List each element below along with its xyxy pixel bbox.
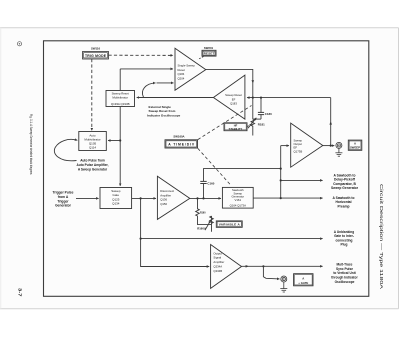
- wire into sweep output EF: [281, 145, 289, 147]
- svg-text:HF: HF: [234, 123, 238, 127]
- svg-text:VARIABLE A: VARIABLE A: [219, 223, 241, 227]
- svg-text:C160: C160: [207, 182, 214, 186]
- block auto multivibrator Q105 Q114: [79, 132, 107, 151]
- page left edge: [0, 28, 2, 309]
- note external single sweep reset: [147, 105, 180, 117]
- svg-text:Sweep Generator: Sweep Generator: [331, 186, 359, 190]
- svg-text:Preamp: Preamp: [337, 205, 349, 209]
- svg-text:Signal: Signal: [213, 256, 221, 260]
- svg-text:Trigger: Trigger: [57, 199, 69, 203]
- switch A TIME/DIV: [165, 140, 198, 148]
- svg-text:SW160A: SW160A: [173, 135, 184, 139]
- svg-text:Q114: Q114: [89, 145, 96, 149]
- wire jog to + GATE jack: [263, 266, 279, 279]
- svg-text:TRIG MODE: TRIG MODE: [85, 54, 107, 58]
- node junction sweep output: [330, 145, 332, 147]
- op-amp sweep output EF Q173B: [291, 123, 323, 167]
- wire timing cap runup line to output node: [204, 169, 281, 182]
- wire output amplifier to mult-trace sync: [242, 265, 323, 267]
- wire trigger pulse into sweep gate: [76, 197, 99, 199]
- wire junction to auto multivibrator: [108, 140, 120, 142]
- wire reset bus into sweep reset EF: [247, 97, 331, 99]
- wiper arrow on potentiometer: [205, 221, 211, 231]
- switch HF STABILITY: [224, 123, 247, 131]
- node junction runup: [280, 168, 282, 170]
- wire external single sweep reset curve: [142, 83, 155, 97]
- note auto pulse source: [77, 159, 109, 172]
- wire dashed HF STABILITY to R181: [247, 124, 250, 127]
- node junction reset bus right: [260, 97, 262, 99]
- svg-text:Auto Pulse Amplifier,: Auto Pulse Amplifier,: [77, 163, 109, 167]
- svg-text:Q150: Q150: [160, 202, 167, 206]
- page top edge: [0, 27, 399, 29]
- switch VARIABLE A: [216, 221, 242, 227]
- wire sweep output to A SWEEP jack: [323, 145, 335, 147]
- block sweep gate Q125 Q134: [100, 188, 132, 209]
- registration mark: [17, 42, 21, 46]
- wire sweep reset EF output to multivibrator: [137, 97, 214, 99]
- note mult-trace sync pulse: [331, 263, 358, 284]
- block sawtooth sweep generator V161 Q164 Q173A: [222, 187, 253, 208]
- svg-text:Indicator Oscilloscope: Indicator Oscilloscope: [147, 113, 180, 117]
- wiper arrow on R181: [248, 118, 256, 128]
- node junction gate takeoff: [262, 265, 264, 267]
- op-amp single-sweep reset Q184 Q204: [175, 48, 206, 90]
- svg-text:Plug: Plug: [341, 243, 348, 247]
- svg-text:Amplifier: Amplifier: [213, 260, 224, 264]
- arrow up on feedback vertical: [329, 121, 332, 124]
- switch RESET: [202, 50, 216, 56]
- svg-text:Trigger Pulse: Trigger Pulse: [53, 191, 74, 195]
- svg-text:R181: R181: [258, 123, 265, 127]
- wire multivibrator bottom down to sweep gate: [119, 107, 121, 186]
- op-amp disconnect amplifier Q136 Q150: [157, 176, 189, 219]
- note A sawtooth to horizontal preamp: [332, 196, 354, 209]
- svg-text:C180: C180: [265, 112, 272, 116]
- node junction sweep gate output: [140, 197, 142, 199]
- page right edge: [398, 28, 400, 309]
- svg-text:A Sweep Generator: A Sweep Generator: [78, 168, 108, 172]
- svg-text:Fig. 3-1. A Sweep Generator de: Fig. 3-1. A Sweep Generator detailed blo…: [29, 114, 33, 175]
- potentiometer VARIABLE A: [210, 216, 214, 232]
- capacitor C160: [200, 181, 214, 198]
- node junction timing resistor tap: [196, 197, 198, 199]
- svg-text:3-7: 3-7: [18, 288, 23, 297]
- svg-text:Q234B: Q234B: [213, 269, 222, 273]
- connector A SWEEP jack: [336, 142, 342, 148]
- svg-text:A TIME/DIV: A TIME/DIV: [168, 143, 195, 147]
- wire dashed TIME/DIV to timing components upper: [198, 106, 252, 140]
- note trigger pulse source: [53, 191, 74, 208]
- wire external reset into triangle: [157, 82, 174, 84]
- wire sweep gate to disconnect amplifier: [132, 197, 156, 199]
- connector + GATE jack: [281, 276, 287, 282]
- block sweep reset multivibrator Q193A Q193B: [106, 91, 135, 107]
- svg-text:Oscilloscope: Oscilloscope: [335, 280, 355, 284]
- svg-text:Q183: Q183: [230, 102, 237, 106]
- svg-text:Generator: Generator: [55, 204, 71, 208]
- switch TRIG MODE: [83, 52, 109, 60]
- note A sawtooth to delay-pickoff: [331, 173, 359, 190]
- svg-text:RESET: RESET: [204, 52, 215, 56]
- svg-text:Q193A Q193B: Q193A Q193B: [111, 102, 130, 106]
- node junction reset bus left: [252, 97, 254, 99]
- wire unblanking gate line: [141, 198, 323, 238]
- svg-text:Q134: Q134: [112, 202, 120, 206]
- svg-text:A: A: [302, 276, 304, 280]
- wire sawtooth output to horizontal preamp: [253, 197, 322, 199]
- resistor R160 branch: [196, 198, 212, 224]
- wire multivibrator top to single-sweep reset input: [119, 69, 121, 91]
- ground at A SWEEP jack: [335, 148, 342, 156]
- svg-text:SW201: SW201: [204, 46, 214, 50]
- node junction sawtooth vertical bottom: [280, 197, 282, 199]
- switch A SWEEP label box: [348, 140, 362, 150]
- wire single-sweep reset output to reset bus: [206, 69, 253, 97]
- wire auto pulse callout loop: [54, 139, 77, 160]
- svg-text:Q173B: Q173B: [294, 149, 303, 153]
- node junction delay pickoff tap: [280, 179, 282, 181]
- wire dashed TRIG MODE to single-sweep reset: [109, 54, 174, 56]
- svg-text:Output: Output: [213, 251, 222, 255]
- wire down to output signal amplifier: [141, 239, 210, 267]
- resistor R181 branch from reset bus: [251, 98, 255, 136]
- svg-text:SWEEP: SWEEP: [350, 146, 360, 150]
- wire dashed TIME/DIV to timing capacitor lower: [198, 148, 231, 185]
- node junction to auto multivibrator: [119, 139, 121, 141]
- capacitor C180 branch: [253, 98, 272, 120]
- page bottom edge: [0, 308, 399, 310]
- arrow on reset feedback vertical: [252, 80, 255, 83]
- wire dashed RESET to triangle: [198, 57, 204, 60]
- svg-text:V161: V161: [235, 198, 242, 202]
- op-amp output signal amplifier Q234A Q234B: [211, 245, 242, 289]
- svg-text:R160V: R160V: [197, 226, 206, 230]
- svg-text:from A: from A: [58, 195, 69, 199]
- svg-text:R160: R160: [200, 213, 206, 215]
- wire sawtooth node vertical: [280, 146, 282, 199]
- node junction timing capacitor tap: [202, 197, 204, 199]
- svg-text:Q164 Q173A: Q164 Q173A: [230, 204, 246, 208]
- arrow after output amplifier apex: [246, 265, 249, 268]
- svg-text:+ GATE: + GATE: [298, 281, 308, 285]
- note A unblanking gate: [334, 230, 354, 247]
- svg-text:SW116: SW116: [91, 46, 100, 50]
- svg-text:Auto Pulse from: Auto Pulse from: [80, 159, 105, 163]
- svg-text:Multivibrator: Multivibrator: [112, 95, 128, 99]
- wire dashed TRIG MODE down to auto multivibrator: [91, 59, 93, 130]
- svg-text:Q204: Q204: [178, 77, 185, 81]
- wire reset bus down to sweep output node: [330, 98, 332, 146]
- wire to delay-pickoff comparator: [281, 179, 323, 181]
- svg-text:Circuit Description — Type 118: Circuit Description — Type 1180A: [379, 184, 384, 289]
- op-amp sweep reset EF Q183 (points left): [213, 75, 245, 119]
- svg-text:STABILITY: STABILITY: [229, 127, 243, 131]
- svg-text:Q234A: Q234A: [213, 265, 222, 269]
- node junction unblanking: [140, 238, 142, 240]
- switch + GATE label box: [294, 274, 313, 286]
- wire disconnect amplifier to sawtooth generator: [190, 197, 221, 199]
- diagram border frame: [44, 41, 369, 296]
- ground at + GATE jack: [280, 282, 287, 292]
